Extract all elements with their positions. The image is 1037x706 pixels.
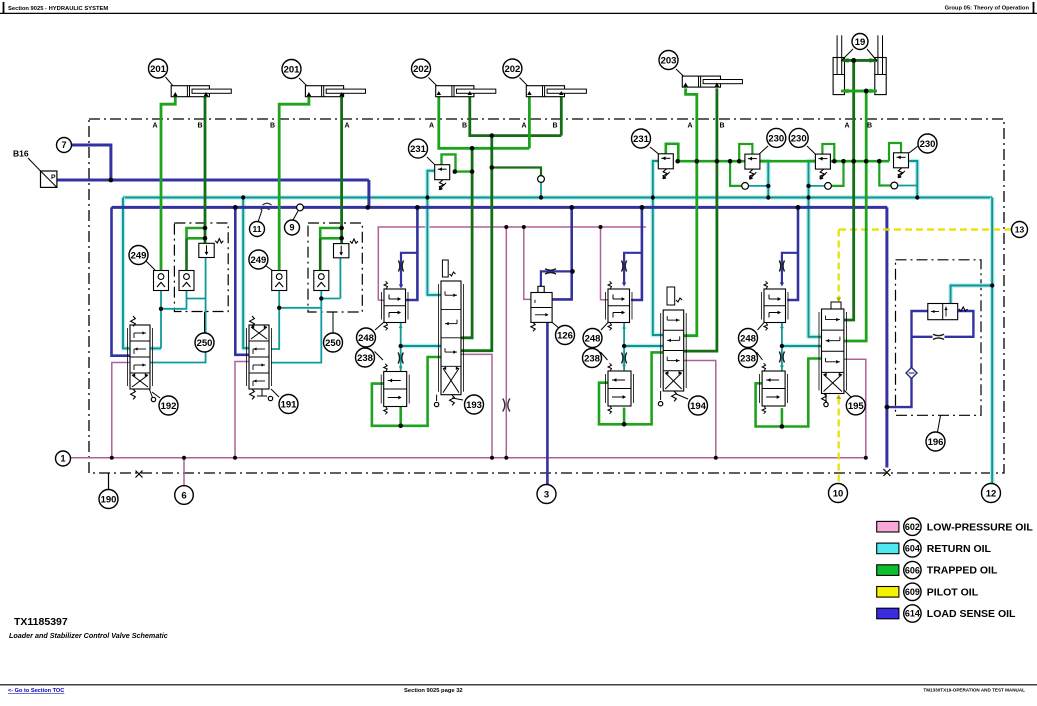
label circle 126 xyxy=(556,326,575,345)
svg-text:231: 231 xyxy=(633,134,650,145)
wire: relief 230c vent loop xyxy=(889,143,901,161)
svg-text:B16: B16 xyxy=(13,149,29,159)
label circle 193 xyxy=(465,395,484,414)
wire: gallery drop 843 to nozzle 230b xyxy=(831,161,843,186)
wire: return drop valve 230b and spool 195 port xyxy=(809,161,822,337)
label circle 196 xyxy=(938,416,941,433)
svg-text:193: 193 xyxy=(466,400,482,411)
svg-text:A: A xyxy=(152,123,157,130)
pressure sensor B16 xyxy=(41,171,57,187)
svg-text:1: 1 xyxy=(60,454,65,464)
svg-text:10: 10 xyxy=(833,488,844,499)
label circle 230a xyxy=(767,128,786,147)
legend swatch 606 xyxy=(877,565,899,576)
label circle 248c xyxy=(758,322,765,330)
wire: gallery drop to spool 193 P1 xyxy=(461,148,472,337)
label circle 11 xyxy=(250,222,265,237)
pilot relief group 1 xyxy=(199,243,214,257)
svg-text:A: A xyxy=(344,123,349,130)
compensator valve 248a xyxy=(384,289,406,323)
label circle 230b xyxy=(789,128,808,147)
label circle 6 xyxy=(175,486,194,505)
label circle 231a xyxy=(409,139,428,158)
inner boundary group 1 (249/250) xyxy=(174,223,228,312)
wire: pink riser to valve 192 xyxy=(112,363,130,458)
cylinder 201 left xyxy=(171,86,209,97)
label circle 13 xyxy=(1012,222,1028,238)
label circle 231b xyxy=(632,129,651,148)
label circle 238c xyxy=(757,352,763,360)
wire: pink link 506 xyxy=(505,227,507,458)
label circle 203 xyxy=(659,51,678,70)
wire: relief 230b vent loop xyxy=(822,144,834,161)
svg-text:6: 6 xyxy=(181,490,186,501)
orifice 248a-238a xyxy=(398,353,403,364)
main spool 195 xyxy=(819,302,852,407)
footer rule xyxy=(0,684,1037,686)
label circle 250b xyxy=(332,312,334,333)
label circle 192 xyxy=(159,396,178,415)
svg-text:249: 249 xyxy=(131,250,147,261)
label circle 250a xyxy=(204,312,206,333)
wire: drain nozzle 230a to bus xyxy=(749,185,769,187)
wire: branch to nozzle 541 xyxy=(492,168,541,176)
wire: nozzle 541 to bus xyxy=(540,182,542,197)
label circle 238b xyxy=(601,352,608,360)
wire: stabilizer cross pipe bottom xyxy=(841,90,877,93)
wire: 248b to 238b link xyxy=(623,323,625,371)
orifice on 248a pilot feed xyxy=(398,261,403,272)
wire: 248a junction to spool 193 xyxy=(401,344,441,349)
orifice on pink link 506 xyxy=(503,399,510,412)
wire: return drop to valve 191 xyxy=(243,198,249,349)
svg-text:126: 126 xyxy=(557,330,573,341)
legend circle 606 xyxy=(904,561,921,578)
wire: relief 231a vent loop xyxy=(442,154,473,171)
svg-text:203: 203 xyxy=(661,55,677,66)
legend circle 602 xyxy=(904,518,921,535)
wire: cyl 202b port A drop xyxy=(528,96,531,149)
wire: pink riser spool 195 xyxy=(844,359,866,458)
wire: 238c recirculation loop xyxy=(756,359,822,427)
wire: drain nozzle 230b to bus xyxy=(809,185,825,187)
svg-text:12: 12 xyxy=(986,488,997,499)
port 190 stub xyxy=(108,473,110,490)
valve body boundary (dash-dot) xyxy=(89,119,1004,473)
label circle 201 left xyxy=(149,59,168,78)
wire: 248c to 238c link xyxy=(781,322,783,371)
label circle 249b xyxy=(266,266,273,271)
control valve 191 xyxy=(249,325,269,389)
svg-text:TM1330TX19-OPERATION AND TEST: TM1330TX19-OPERATION AND TEST MANUAL xyxy=(923,688,1025,693)
svg-text:250: 250 xyxy=(197,338,213,349)
wire: relief 230a vent loop xyxy=(739,144,752,161)
wire: valve 126 outlet to port 3 xyxy=(546,322,549,484)
plug X right xyxy=(883,469,890,476)
port 1 circle xyxy=(56,451,71,466)
svg-text:PILOT OIL: PILOT OIL xyxy=(927,586,979,598)
wire: pilot hook group 1 xyxy=(187,228,206,238)
svg-text:11: 11 xyxy=(253,224,262,234)
label circle 191 xyxy=(279,395,298,414)
cylinder 202 right xyxy=(526,86,564,97)
svg-text:A: A xyxy=(429,123,434,130)
wire: stabilizer cross pipe top xyxy=(841,59,877,62)
svg-text:230: 230 xyxy=(791,133,807,144)
wire: cyl 202b port B drop xyxy=(560,96,563,136)
wire: 248b junction to spool 194 xyxy=(624,344,663,349)
label circle 238a xyxy=(375,352,384,361)
reducing valve 196 xyxy=(928,304,958,320)
svg-text:201: 201 xyxy=(150,64,167,75)
wire: return drop valve 230a xyxy=(759,161,768,198)
svg-text:230: 230 xyxy=(920,139,936,150)
plug X on boundary xyxy=(136,471,143,478)
svg-text:B: B xyxy=(270,123,275,130)
svg-text:7: 7 xyxy=(61,140,66,150)
label circle 248a xyxy=(375,322,384,330)
svg-text:190: 190 xyxy=(101,494,117,505)
node 9 tap xyxy=(297,204,304,211)
control valve 192 xyxy=(130,325,150,389)
wire: stabilizer rod line xyxy=(844,60,854,320)
svg-text:609: 609 xyxy=(905,587,920,597)
svg-text:A: A xyxy=(844,123,849,130)
wire: navy drop to 248c xyxy=(787,207,798,300)
anticav valve 238b xyxy=(608,371,631,406)
legend swatch 609 xyxy=(877,587,899,598)
wire: navy drop to 248b xyxy=(631,207,642,300)
wire: cyl 201b port A drop xyxy=(340,97,343,244)
flow valve 126 xyxy=(538,286,544,292)
orifice 248c-238c xyxy=(779,352,784,363)
wire: gallery drop to spool 193 P2 xyxy=(461,136,492,351)
svg-text:202: 202 xyxy=(504,64,520,75)
anticav valve 238c xyxy=(762,371,785,406)
wire: cyl 201b port B to check 249b xyxy=(279,97,309,271)
wire: cyl 203 port A drop xyxy=(684,88,697,335)
wire: check network group 1 xyxy=(160,291,162,349)
wire: pilot drop to spool 195 pilot xyxy=(838,230,840,299)
svg-text:TRAPPED OIL: TRAPPED OIL xyxy=(927,565,998,577)
wire: cyl 203 port B drop xyxy=(684,88,717,351)
svg-text:201: 201 xyxy=(284,64,301,75)
wire: pink feed valve 248b xyxy=(601,227,609,300)
wire: return oil bus (cyan) xyxy=(123,195,992,200)
wire: return branch to valve 196 xyxy=(951,286,993,304)
svg-text:RETURN OIL: RETURN OIL xyxy=(927,543,992,555)
wire: return bus right drop to port 12 xyxy=(990,198,995,485)
anticav valve 238a xyxy=(384,372,407,407)
pilot relief group 2 xyxy=(334,244,349,258)
svg-text:B: B xyxy=(197,123,202,130)
svg-text:238: 238 xyxy=(740,353,756,364)
svg-text:A: A xyxy=(687,123,692,130)
svg-text:Group 05: Theory of Operation: Group 05: Theory of Operation xyxy=(945,6,1030,12)
inner boundary valve 196 xyxy=(896,260,982,416)
main spool 193 xyxy=(434,260,463,407)
svg-text:B: B xyxy=(552,123,557,130)
legend swatch 604 xyxy=(877,543,899,554)
svg-text:LOAD SENSE OIL: LOAD SENSE OIL xyxy=(927,608,1016,620)
wire: sensor line from port 7 xyxy=(72,145,111,180)
hose break symbol 11 xyxy=(261,203,272,210)
label circle 202 right xyxy=(503,59,522,78)
svg-text:250: 250 xyxy=(325,338,341,349)
wire: pilot oil line to port 13 (yellow dashed) xyxy=(839,228,1012,230)
compensator valve 248b xyxy=(608,289,630,323)
relief valve 231a xyxy=(435,165,450,180)
wire: return riser valve 231b and spool 194 port xyxy=(653,161,663,335)
wire: 238a recirculation loop xyxy=(372,357,441,426)
wire: drain nozzle 230c to bus xyxy=(898,185,918,187)
label circle 201 right xyxy=(282,60,301,79)
svg-text:B: B xyxy=(462,123,467,130)
svg-text:614: 614 xyxy=(905,609,920,619)
svg-text:Section 9025 page 32: Section 9025 page 32 xyxy=(404,688,463,694)
wire: gallery drop 730 to nozzle 230a xyxy=(730,161,742,186)
svg-text:LOW-PRESSURE OIL: LOW-PRESSURE OIL xyxy=(927,521,1034,533)
wire: return riser valve 231a xyxy=(427,171,441,295)
svg-text:604: 604 xyxy=(905,544,920,554)
orifice on 248c pilot feed xyxy=(779,261,784,272)
label circle 248b xyxy=(601,322,609,330)
wire: pink drop to port 6 xyxy=(183,458,185,486)
wire: pilot hook group 2 xyxy=(320,228,341,238)
wire: check network group 2 xyxy=(271,291,279,350)
svg-text:19: 19 xyxy=(855,37,866,48)
wire: pink riser to valve 191 xyxy=(235,362,249,458)
header rule xyxy=(0,12,1037,14)
svg-text:249: 249 xyxy=(250,255,266,266)
svg-text:195: 195 xyxy=(848,401,865,412)
main spool 194 xyxy=(658,287,688,406)
check valve 249a-1 xyxy=(154,271,169,291)
svg-text:B: B xyxy=(867,123,872,130)
check valve 249a-2 xyxy=(179,271,194,291)
svg-text:Loader and Stabilizer Control: Loader and Stabilizer Control Valve Sche… xyxy=(9,631,168,640)
check valve 249b-1 xyxy=(272,271,287,291)
legend circle 604 xyxy=(904,540,921,557)
orifice on 248b pilot feed xyxy=(622,261,627,272)
label circle 230c xyxy=(918,134,937,153)
nozzle node 230b xyxy=(825,183,832,190)
orifice 196 xyxy=(933,334,944,339)
svg-text:602: 602 xyxy=(905,522,920,532)
cylinder 202 left xyxy=(436,86,474,97)
wire: navy drop to 248a xyxy=(405,207,417,300)
filter diamond 196 xyxy=(906,368,917,379)
wire: return drop valve 230c xyxy=(909,161,917,198)
wire: gallery drop 879 to nozzle 230c xyxy=(879,161,891,185)
relief valve 230c xyxy=(894,153,909,168)
port 7 circle xyxy=(57,138,72,153)
wire: 238b recirculation loop xyxy=(599,352,663,424)
svg-text:192: 192 xyxy=(161,401,177,412)
wire: navy drop to valve 191 xyxy=(235,207,249,354)
junction dots xyxy=(109,178,114,183)
svg-text:<- Go to Section TOC: <- Go to Section TOC xyxy=(8,688,64,694)
label circle 249a xyxy=(146,261,155,270)
wire: bus2 right drop to valve 196 and border xyxy=(885,207,888,467)
wire: pink riser spool 194 xyxy=(684,361,716,458)
legend circle 614 xyxy=(904,605,921,622)
label circle 10 xyxy=(829,484,848,503)
wire: load sense bus 2 xyxy=(112,206,888,209)
svg-text:P: P xyxy=(51,174,56,181)
compensator valve 248c xyxy=(764,289,786,323)
wire: bus1 drop to bus2 xyxy=(367,180,370,207)
label circle 9 xyxy=(285,220,300,235)
wire: 248a to 238a link xyxy=(400,322,402,372)
svg-text:9: 9 xyxy=(289,223,294,233)
label circle 12 xyxy=(982,484,1001,503)
wire: navy drop to valve 126 xyxy=(552,207,572,299)
relief valve 230b xyxy=(815,154,830,169)
legend swatch 614 xyxy=(877,608,899,619)
svg-text:202: 202 xyxy=(413,64,429,75)
svg-text:194: 194 xyxy=(690,401,707,412)
wire: 248c junction to spool 195 xyxy=(782,344,822,349)
label circle 3 xyxy=(537,485,556,504)
wire: pink riser spool 193 xyxy=(461,354,492,457)
svg-text:191: 191 xyxy=(281,399,298,410)
relief valve 230a xyxy=(745,154,760,169)
check valve 249b-2 xyxy=(314,271,329,291)
svg-text:238: 238 xyxy=(357,353,373,364)
svg-text:3: 3 xyxy=(544,489,549,500)
inner boundary group 2 (249/250) xyxy=(308,223,362,312)
svg-text:13: 13 xyxy=(1015,225,1025,235)
label circle 190 xyxy=(99,490,118,509)
wire: cyl 201a port A to check 249a xyxy=(161,97,175,271)
svg-text:TX1185397: TX1185397 xyxy=(14,616,68,628)
orifice 248b-238b xyxy=(622,353,627,364)
stabilizer cylinder right (19) xyxy=(875,58,886,95)
legend swatch 602 xyxy=(877,521,899,532)
wire: cyl 202a port B gallery xyxy=(470,96,562,136)
legend circle 609 xyxy=(904,583,921,600)
svg-text:248: 248 xyxy=(358,333,374,344)
wire: relief 231b vent loop and gallery 161 xyxy=(666,144,889,161)
wire: return drop to valve 192 xyxy=(123,198,161,349)
label circle 194 xyxy=(689,396,708,415)
orifice 126 xyxy=(545,269,556,274)
svg-text:238: 238 xyxy=(584,353,600,364)
wire: cyl 202a port A gallery xyxy=(439,96,530,149)
svg-text:A: A xyxy=(521,123,526,130)
stabilizer cross pipe redraw xyxy=(841,59,877,62)
wire: stabilizer head line xyxy=(844,91,866,341)
legend xyxy=(0,0,1,1)
cylinder 201 right xyxy=(305,86,343,97)
wire: pink feed valve 126 xyxy=(524,227,531,299)
svg-text:B: B xyxy=(719,123,724,130)
svg-text:Section 9025 - HYDRAULIC SYSTE: Section 9025 - HYDRAULIC SYSTEM xyxy=(8,6,108,12)
cylinder 203 xyxy=(682,76,720,87)
svg-text:248: 248 xyxy=(585,333,601,344)
wire: valve 196 feed loop xyxy=(887,311,928,407)
wire: low-pressure bus (pink) xyxy=(71,457,866,459)
wire: pilot line spool 195 to port 10 xyxy=(838,398,840,484)
relief valve 231b xyxy=(658,154,673,169)
label circle 202 left xyxy=(412,59,431,78)
wire: bus2 left drop to valve 192 xyxy=(112,207,131,355)
wire: load sense bus 1 xyxy=(57,179,369,182)
label circle 195 xyxy=(846,396,865,415)
stabilizer cylinder left (19) xyxy=(833,58,844,95)
nozzle node 541 xyxy=(538,176,545,183)
svg-text:606: 606 xyxy=(905,565,920,575)
nozzle node 230a xyxy=(742,183,749,190)
svg-text:248: 248 xyxy=(740,333,756,344)
nozzle node 230c xyxy=(891,182,898,189)
label circle 19 xyxy=(841,49,853,61)
svg-text:231: 231 xyxy=(410,144,427,155)
wire: pink top gallery xyxy=(378,227,646,300)
svg-text:230: 230 xyxy=(768,133,784,144)
wire: cyl 201a port B drop xyxy=(204,97,207,244)
svg-text:196: 196 xyxy=(928,437,944,448)
